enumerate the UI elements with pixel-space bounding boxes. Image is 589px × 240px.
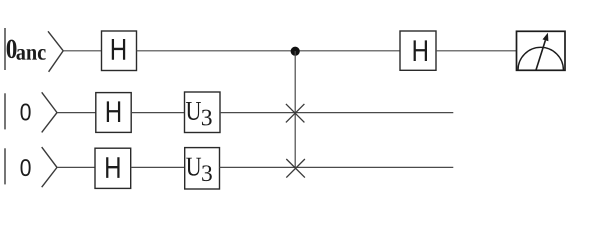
wire q1: ket to first H (63, 50, 101, 52)
ket bar qubit 2 |0 (4, 93, 6, 129)
H gate box q2 (96, 93, 131, 133)
wire q3: U3 to right end through swap cross (220, 166, 454, 168)
meter needle (536, 40, 545, 70)
wire q3: H to U3 (131, 166, 185, 168)
meter dial arc (518, 47, 563, 70)
U3 gate letter U q2 (186, 102, 201, 120)
H gate letter q2 (107, 101, 120, 122)
ket bar qubit 3 |0 (4, 148, 6, 184)
U3 gate subscript 3 q3 (202, 165, 212, 181)
control dot of controlled-SWAP (291, 47, 300, 56)
wire q3: ket to H (57, 166, 95, 168)
ket bar of ancilla qubit |0_anc (4, 28, 6, 70)
measurement meter box (517, 31, 566, 70)
ket subscript anc (16, 49, 45, 60)
wire q2: ket to H (57, 112, 96, 114)
wire q1: H to second H through control (137, 50, 401, 52)
wire q2: H to U3 (131, 112, 184, 114)
H gate box q1 first (102, 31, 137, 71)
H gate box q3 (95, 148, 131, 188)
U3 gate letter U q3 (186, 158, 201, 176)
ket angle bracket qubit 2 (42, 92, 57, 132)
ket angle bracket qubit 3 (42, 147, 57, 187)
swap cross X q2 (286, 104, 305, 123)
H gate box q1 second (400, 31, 436, 70)
ket digit 0 qubit 3 (21, 159, 31, 176)
wire q1: second H to meter (436, 50, 517, 52)
wire q2: U3 to right end through swap cross (220, 112, 453, 114)
U3 gate subscript 3 q2 (202, 110, 212, 126)
ket angle bracket qubit 1 (48, 31, 63, 72)
swap cross X q3 (286, 159, 305, 178)
U3 gate box q2 (185, 92, 221, 133)
ket digit 0 (ancilla) (7, 40, 17, 59)
H gate letter q3 (106, 157, 119, 178)
meter needle arrowhead (543, 33, 549, 42)
vertical control line of controlled-SWAP (294, 51, 296, 168)
ket digit 0 qubit 2 (21, 104, 31, 121)
H gate letter q1 second (414, 40, 427, 61)
U3 gate box q3 (185, 148, 220, 189)
H gate letter q1 first (112, 39, 125, 60)
